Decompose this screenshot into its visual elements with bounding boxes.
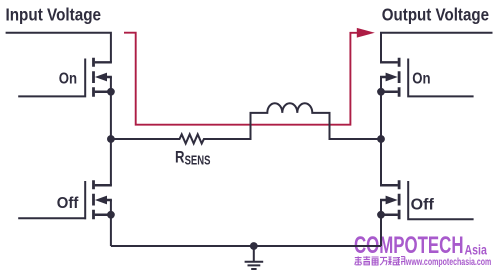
svg-text:Off: Off: [411, 197, 435, 214]
svg-text:Input Voltage: Input Voltage: [6, 4, 102, 24]
svg-text:R: R: [175, 148, 185, 167]
svg-text:Output Voltage: Output Voltage: [382, 4, 489, 24]
svg-text:www.compotechasia.com: www.compotechasia.com: [405, 257, 491, 268]
svg-text:Off: Off: [57, 195, 79, 212]
svg-text:SENS: SENS: [185, 154, 211, 168]
svg-text:On: On: [59, 70, 77, 87]
svg-text:On: On: [412, 70, 430, 87]
